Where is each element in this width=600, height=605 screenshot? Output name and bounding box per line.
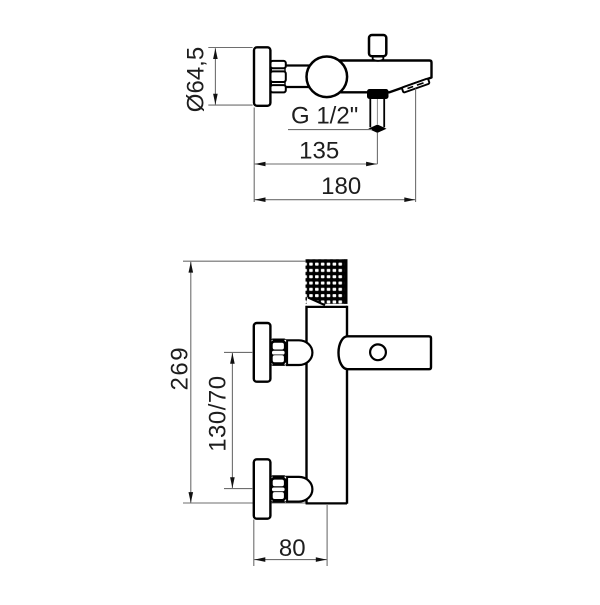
- svg-text:Ø64,5: Ø64,5: [183, 47, 210, 112]
- svg-text:269: 269: [166, 346, 193, 391]
- svg-text:135: 135: [299, 137, 339, 164]
- svg-text:80: 80: [279, 535, 306, 562]
- svg-text:180: 180: [321, 173, 361, 200]
- svg-text:G 1/2": G 1/2": [291, 103, 358, 130]
- svg-text:130/70: 130/70: [204, 375, 231, 451]
